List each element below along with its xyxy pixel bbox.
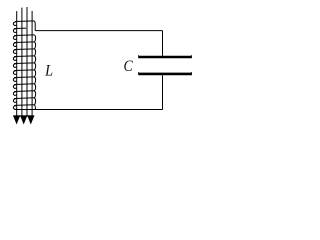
inductor L turn 5 right connector	[34, 49, 35, 56]
svg-text:C: C	[123, 58, 133, 75]
wire top (coil to capacitor)	[35, 30, 162, 32]
field arrowhead 1	[13, 116, 20, 125]
LC oscillating circuit schematic	[0, 0, 198, 131]
wire right lower (capacitor to bottom wire)	[162, 75, 164, 109]
inductor L turn 10 left arc	[13, 85, 16, 89]
field arrowheads base bar	[13, 115, 34, 116]
inductor L turn 5 front line	[14, 48, 34, 51]
svg-text:L: L	[44, 63, 53, 80]
inductor L turn 7 front line	[14, 62, 34, 65]
inductor L turn 7 left arc	[13, 64, 16, 68]
inductor L turn 9 left arc	[13, 78, 16, 82]
wire bottom (capacitor to coil)	[15, 109, 162, 111]
inductor L turn 8 left arc	[13, 71, 16, 75]
inductor L turn 9 front line	[14, 76, 34, 79]
inductor L turn 6 right connector	[34, 56, 35, 63]
inductor L turn 12 left arc	[13, 99, 16, 103]
wire right upper (to capacitor top plate)	[162, 31, 164, 56]
field line B1	[16, 11, 18, 116]
inductor L turn 2 left arc	[13, 29, 16, 33]
inductor L turn 11 left arc	[13, 92, 16, 96]
field line B2	[21, 8, 23, 117]
inductor L turn 5 left arc	[13, 50, 16, 54]
field line B4	[31, 11, 33, 117]
inductor L turn 1 front line	[15, 20, 34, 23]
inductor L turn 4 right connector	[34, 42, 35, 49]
inductor L turn 13 left arc	[13, 106, 16, 110]
inductor L turn 12 front line	[14, 97, 34, 100]
inductor L turn 10 right connector	[34, 84, 35, 91]
inductor L turn 3 right connector	[34, 35, 35, 42]
inductor L turn 4 front line	[14, 41, 34, 44]
inductor L turn 9 right connector	[34, 77, 35, 84]
inductor L top lead	[34, 21, 35, 31]
inductor L turn 3 front line	[14, 34, 34, 37]
inductor L turn 10 front line	[14, 83, 34, 86]
inductor L turn 6 front line	[14, 55, 34, 58]
capacitor C bottom plate	[138, 72, 192, 75]
capacitor C top plate	[138, 55, 192, 58]
inductor L turn 13 front line	[14, 104, 34, 107]
inductor L turn 11 right connector	[34, 91, 35, 98]
inductor L turn 12 right connector	[34, 98, 35, 105]
inductor L turn 4 left arc	[13, 43, 16, 47]
field line B3	[26, 7, 28, 116]
inductor L turn 6 left arc	[13, 57, 16, 61]
inductor L turn 3 left arc	[13, 36, 16, 40]
inductor L turn 8 front line	[14, 69, 34, 72]
inductor L turn 7 right connector	[34, 63, 35, 70]
field arrowhead 2	[20, 116, 27, 125]
inductor L turn 11 front line	[14, 90, 34, 93]
inductor L turn 8 right connector	[34, 70, 35, 77]
inductor L turn 2 front line	[14, 27, 26, 29]
field arrowhead 3	[27, 116, 34, 125]
inductor L turn 1 left arc	[13, 22, 16, 26]
inductor L bottom lead	[34, 105, 35, 110]
